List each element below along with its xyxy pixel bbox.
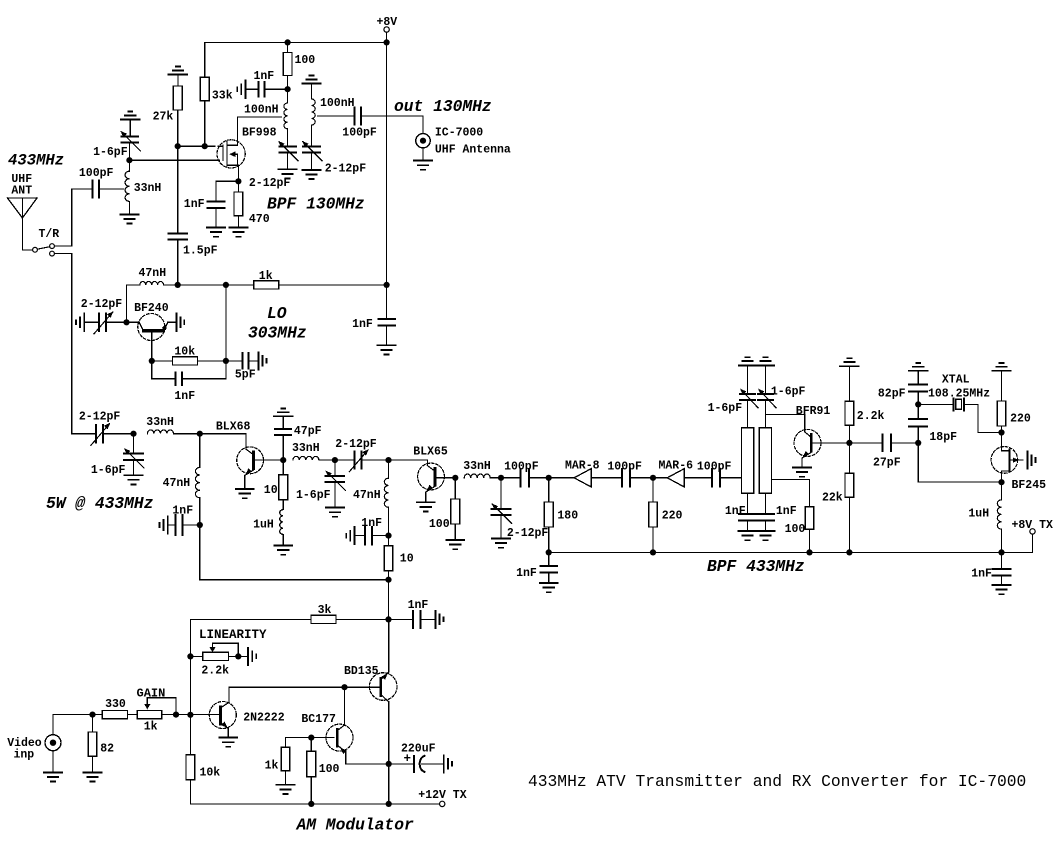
resistor 2.2k	[845, 366, 885, 443]
ground mini right of linearity	[238, 648, 256, 665]
label UHF ANT	[11, 173, 32, 198]
transistor Q4 BFR91	[766, 405, 850, 468]
label BPF 433MHz	[707, 557, 805, 576]
wire 3k rail	[190, 618, 311, 620]
trimmer 2-12pF osc	[81, 298, 127, 334]
node 33k/gate1	[202, 143, 208, 149]
svg-text:1k: 1k	[259, 270, 273, 283]
node gain wiper	[173, 712, 179, 718]
resistor 22k	[822, 443, 854, 553]
resistor 100 BLX65	[429, 478, 460, 540]
resistor 220 MAR6	[649, 478, 683, 553]
label BF998	[242, 127, 277, 140]
node bus/1uH	[998, 549, 1004, 555]
svg-text:1uH: 1uH	[253, 519, 274, 532]
wire trimmer1 to ground	[287, 153, 289, 170]
ground 1nF bus right	[993, 585, 1011, 594]
node rail/100	[308, 801, 314, 807]
svg-text:100: 100	[319, 763, 340, 776]
node rail/BD135	[386, 801, 392, 807]
svg-text:5W @ 433MHz: 5W @ 433MHz	[46, 494, 153, 513]
resistor 33k	[200, 77, 232, 102]
svg-text:10: 10	[400, 553, 414, 566]
svg-text:1nF: 1nF	[408, 599, 429, 612]
capacitor 1nF drain bypass	[246, 70, 288, 97]
ground resonator 1	[739, 531, 757, 540]
ground mini above resonator 2	[761, 357, 771, 361]
resistor 100	[283, 42, 315, 89]
ground BLX65 emitter	[417, 502, 435, 511]
trimmer 2-12pF TX series	[72, 411, 134, 446]
wire +8V rail	[205, 41, 387, 43]
ground 2N2222 emitter	[219, 738, 237, 747]
svg-text:1k: 1k	[265, 760, 279, 773]
svg-text:220: 220	[1010, 413, 1031, 426]
svg-text:330: 330	[105, 698, 126, 711]
power terminal +12V TX	[418, 789, 466, 807]
capacitor 1nF source	[184, 181, 239, 227]
wire RX input vertical	[71, 189, 73, 246]
resistor 3k	[311, 604, 389, 624]
ground 1nF LO	[378, 345, 396, 354]
svg-text:1-6pF: 1-6pF	[708, 402, 743, 415]
node BLX65 base	[385, 457, 391, 463]
resistor 470	[234, 181, 270, 227]
ground mini left of 1nF	[237, 81, 245, 98]
svg-text:2-12pF: 2-12pF	[325, 163, 367, 176]
node +8V/LO rail	[384, 282, 390, 288]
ground 1uH BLX68	[274, 546, 292, 555]
svg-text:BF245: BF245	[1012, 479, 1047, 492]
wire modulated supply left	[200, 525, 389, 580]
svg-text:100pF: 100pF	[79, 167, 114, 180]
inductor 100nH right	[302, 76, 354, 146]
label BPF 130MHz	[267, 195, 365, 214]
svg-text:2.2k: 2.2k	[201, 665, 229, 678]
svg-text:1-6pF: 1-6pF	[771, 385, 806, 398]
svg-text:1nF: 1nF	[725, 505, 746, 518]
svg-text:10k: 10k	[200, 767, 221, 780]
svg-text:1.5pF: 1.5pF	[183, 244, 218, 257]
svg-text:100: 100	[295, 54, 316, 67]
wire modulator vertical top	[388, 580, 390, 620]
node bus/100	[806, 549, 812, 555]
node BD135 base/BC177	[341, 684, 347, 690]
label AM Modulator	[296, 816, 414, 835]
inductor 100nH left	[244, 89, 288, 146]
svg-text:LO: LO	[267, 304, 287, 323]
ground mini above resonator 1	[743, 357, 753, 361]
ground 1nF bus left	[540, 583, 558, 592]
svg-text:BPF 433MHz: BPF 433MHz	[707, 557, 805, 576]
wire +8V vertical	[386, 42, 388, 285]
power terminal +8V TX	[1002, 519, 1054, 552]
resistor 330	[93, 698, 138, 719]
node BFR91 collector	[846, 440, 852, 446]
node BLX65 collector	[452, 475, 458, 481]
ground mini right of 5pF	[258, 352, 266, 369]
svg-text:BF998: BF998	[242, 127, 277, 140]
transistor Q6 2N2222	[209, 687, 284, 737]
ground BPF1	[279, 169, 297, 178]
trimmer 2-12pF interstage	[335, 438, 388, 472]
resistor 220 osc	[997, 371, 1031, 433]
svg-text:1-6pF: 1-6pF	[91, 464, 126, 477]
ground 33nH input	[120, 214, 138, 223]
node bus/220	[650, 549, 656, 555]
wire 27k column	[177, 110, 179, 233]
ground mini above 82pF	[909, 363, 928, 371]
trimmer 1-6pF resonator 1	[708, 365, 758, 427]
svg-text:1k: 1k	[144, 721, 158, 734]
capacitor 1nF modulator	[389, 599, 436, 628]
svg-text:100pF: 100pF	[697, 461, 732, 474]
wire TX path vertical	[71, 254, 73, 434]
svg-text:47pF: 47pF	[294, 425, 322, 438]
svg-text:out 130MHz: out 130MHz	[394, 97, 492, 116]
ground mini above 220	[992, 363, 1011, 371]
node output tank	[498, 475, 504, 481]
node 10k/5pF	[223, 358, 229, 364]
wire 33k to rail	[204, 42, 206, 77]
node junction top rail / 100	[285, 39, 291, 45]
wire gate2	[129, 159, 219, 161]
inductor 33nH interstage	[292, 442, 354, 460]
node junction top rail / +8V	[384, 39, 390, 45]
ground mini above 1-6pF input	[121, 112, 140, 120]
svg-text:5pF: 5pF	[235, 369, 256, 382]
resistor 100 BC177	[307, 738, 340, 804]
svg-text:1-6pF: 1-6pF	[93, 146, 128, 159]
node base/linearity column	[187, 712, 193, 718]
svg-text:2-12pF: 2-12pF	[335, 438, 377, 451]
potentiometer 2.2k LINEARITY	[190, 643, 238, 677]
ground 1k BC177	[277, 785, 295, 794]
resistor 10k feedback	[152, 346, 226, 366]
capacitor 5pF	[226, 353, 259, 381]
svg-text:2-12pF: 2-12pF	[79, 411, 121, 424]
trimmer 2-12pF BPF1	[249, 139, 298, 190]
capacitor 220uF	[389, 743, 444, 772]
node video/82	[89, 712, 95, 718]
wire BPF output tap	[772, 480, 810, 507]
ground BPF2	[303, 170, 321, 179]
wire trimmer2 to ground	[311, 153, 313, 170]
node 27k/gate1	[175, 143, 181, 149]
svg-text:82: 82	[100, 743, 114, 756]
node 3k/modulator	[385, 616, 391, 622]
svg-text:1-6pF: 1-6pF	[296, 489, 331, 502]
svg-text:47nH: 47nH	[163, 477, 191, 490]
node XTAL/220/gate	[998, 429, 1004, 435]
node BD135 collector/220uF	[386, 761, 392, 767]
resistor 100 BPF	[785, 507, 814, 553]
svg-text:180: 180	[557, 510, 578, 523]
node BF240 base	[149, 358, 155, 364]
label LINEARITY	[199, 628, 267, 642]
svg-text:MAR-6: MAR-6	[659, 459, 694, 472]
connector IC-7000 UHF	[416, 126, 511, 156]
inductor 1uH BF245	[968, 482, 1001, 552]
trimmer 1-6pF input	[93, 120, 140, 161]
wire 2N2222 base	[162, 714, 220, 716]
capacitor 1nF resonator 1	[725, 493, 756, 531]
ground interstage shunt	[326, 508, 344, 517]
inductor 33nH input	[125, 160, 161, 214]
node BF245 source	[998, 479, 1004, 485]
svg-text:470: 470	[249, 213, 270, 226]
power terminal +8V	[377, 16, 398, 42]
node linearity left	[187, 653, 193, 659]
wire out 130MHz	[318, 116, 424, 133]
label out 130MHz	[394, 97, 492, 116]
ground mini right of 1nF mod	[435, 611, 443, 628]
node BF998 source	[235, 178, 241, 184]
node input junction	[126, 157, 132, 163]
node modulated supply	[385, 577, 391, 583]
wire ground bus	[549, 551, 1002, 553]
transistor Q3 BLX65	[389, 446, 456, 503]
wire BC177 base	[286, 738, 334, 748]
svg-text:GAIN: GAIN	[137, 687, 166, 701]
node BC177 base/100	[308, 735, 314, 741]
trimmer 1-6pF resonator 2	[756, 365, 805, 427]
svg-text:100nH: 100nH	[320, 97, 355, 110]
svg-text:BPF 130MHz: BPF 130MHz	[267, 195, 365, 214]
svg-text:433MHz: 433MHz	[8, 152, 64, 170]
svg-text:1nF: 1nF	[352, 318, 373, 331]
svg-text:100: 100	[785, 523, 806, 536]
connector Video inp	[7, 715, 92, 762]
resistor 10 BLX68	[264, 460, 288, 500]
wire BF998 drain	[238, 117, 282, 145]
ground mini above 2.2k	[840, 358, 859, 366]
antenna UHF	[8, 198, 38, 250]
ground IC-7000	[414, 148, 432, 170]
svg-text:33k: 33k	[212, 90, 233, 103]
node 1.5pF/LO rail	[175, 282, 181, 288]
ground mini BF240 emitter	[177, 314, 185, 332]
wire source to 18pF node	[918, 443, 1001, 482]
svg-text:ANT: ANT	[11, 185, 32, 198]
svg-text:10k: 10k	[174, 346, 195, 359]
wire 33k to gate1	[204, 101, 206, 146]
svg-text:IC-7000: IC-7000	[435, 126, 483, 139]
svg-text:303MHz: 303MHz	[248, 324, 307, 343]
transistor U1 BF998 dual-gate MOSFET	[217, 140, 245, 182]
label 5W @ 433MHz	[46, 494, 153, 513]
svg-text:XTAL: XTAL	[942, 374, 970, 387]
resistor 27k	[153, 75, 183, 124]
ground mini right of 220uF	[444, 755, 452, 772]
potentiometer 1k GAIN	[137, 687, 177, 734]
resistor 180	[544, 478, 578, 553]
node BLX68 collector	[280, 457, 286, 463]
svg-text:27k: 27k	[153, 111, 174, 124]
transistor Q5 BF245	[991, 433, 1046, 493]
svg-text:+8V TX: +8V TX	[1012, 519, 1054, 532]
svg-text:10: 10	[264, 484, 278, 497]
title	[528, 772, 1026, 791]
capacitor 1nF resonator 2	[757, 493, 797, 531]
node MAR-8 input	[546, 475, 552, 481]
svg-text:2.2k: 2.2k	[857, 410, 885, 423]
node 47nH/1nF	[197, 522, 203, 528]
node MAR-6 input	[650, 475, 656, 481]
ground mini 1nF BLX65	[346, 527, 354, 544]
label LO 303MHz	[248, 304, 307, 343]
capacitor 100pF MAR8-MAR6	[607, 461, 653, 487]
svg-text:33nH: 33nH	[146, 416, 174, 429]
ground 470	[229, 228, 247, 237]
resistor 82	[88, 715, 114, 773]
capacitor 82pF	[878, 371, 927, 405]
capacitor 100pF input	[72, 167, 124, 198]
capacitor 1nF BLX68	[168, 505, 200, 535]
svg-text:47nH: 47nH	[139, 267, 167, 280]
transistor Q8 BD135	[344, 619, 397, 804]
resonator line 2	[759, 428, 771, 493]
crystal XTAL 108.25MHz	[918, 374, 1001, 433]
node interstage shunt	[332, 457, 338, 463]
inductor 47nH LO	[127, 267, 167, 322]
ground 1nF source	[207, 228, 225, 237]
inductor 33nH output	[463, 460, 520, 478]
ground BLX68 emitter	[236, 489, 254, 498]
svg-text:1nF: 1nF	[361, 517, 382, 530]
capacitor 100pF out	[342, 108, 377, 140]
capacitor 1nF bus right	[971, 552, 1010, 585]
inductor 1uH BLX68	[253, 500, 283, 546]
wire +12V rail	[190, 803, 439, 805]
node 82pF/18pF/XTAL	[915, 401, 921, 407]
svg-text:108.25MHz: 108.25MHz	[928, 388, 990, 401]
svg-text:100pF: 100pF	[607, 461, 642, 474]
svg-text:33nH: 33nH	[463, 460, 491, 473]
svg-text:3k: 3k	[318, 604, 332, 617]
inductor 47nH BLX65	[353, 460, 389, 535]
svg-text:2-12pF: 2-12pF	[249, 177, 291, 190]
resistor 10 BLX65	[384, 536, 414, 580]
svg-text:+12V TX: +12V TX	[418, 789, 466, 802]
ground 100 BLX65	[446, 540, 464, 549]
ground resonator 2	[757, 531, 775, 540]
resonator line 1	[742, 428, 754, 493]
svg-text:+8V: +8V	[377, 16, 398, 29]
svg-text:LINEARITY: LINEARITY	[199, 628, 267, 642]
svg-text:100: 100	[429, 518, 450, 531]
svg-text:1uH: 1uH	[968, 508, 989, 521]
svg-text:BLX65: BLX65	[413, 446, 448, 459]
svg-text:BLX68: BLX68	[216, 421, 251, 434]
svg-text:100nH: 100nH	[244, 104, 279, 117]
ground Video inp	[44, 751, 62, 782]
capacitor 1nF feedback	[152, 361, 226, 403]
svg-text:MAR-8: MAR-8	[565, 459, 600, 472]
amplifier MAR-8	[549, 459, 622, 487]
svg-text:2-12pF: 2-12pF	[81, 298, 123, 311]
amplifier MAR-6	[653, 459, 711, 487]
ground output shunt	[492, 539, 510, 548]
svg-text:UHF Antenna: UHF Antenna	[435, 143, 511, 156]
trimmer 2-12pF output shunt	[490, 478, 549, 540]
capacitor 100pF to BPF433	[697, 461, 742, 487]
svg-text:33nH: 33nH	[134, 182, 162, 195]
wire 2N2222 collector to BD135	[229, 686, 379, 688]
svg-text:2N2222: 2N2222	[243, 712, 285, 725]
node 47nH/1nF BLX65	[385, 533, 391, 539]
svg-text:47nH: 47nH	[353, 489, 381, 502]
svg-text:1nF: 1nF	[172, 505, 193, 518]
wire LO rail	[164, 284, 254, 286]
node linearity wiper	[235, 653, 241, 659]
capacitor 1.5pF	[168, 233, 217, 285]
ground TX shunt	[125, 475, 143, 484]
resistor 1k BC177	[265, 747, 290, 784]
svg-text:inp: inp	[14, 749, 35, 762]
svg-text:27pF: 27pF	[873, 457, 901, 470]
svg-text:T/R: T/R	[39, 228, 60, 241]
trimmer 1-6pF interstage	[296, 460, 345, 508]
svg-text:BFR91: BFR91	[796, 405, 831, 418]
svg-text:22k: 22k	[822, 492, 843, 505]
capacitor 47pF	[274, 408, 322, 460]
inductor 47nH BLX68	[163, 434, 200, 525]
svg-text:1nF: 1nF	[776, 505, 797, 518]
capacitor 1nF BLX65	[355, 517, 389, 544]
svg-text:100pF: 100pF	[504, 461, 539, 474]
svg-text:33nH: 33nH	[292, 442, 320, 455]
transistor Q1 BF240	[127, 302, 177, 361]
svg-text:BC177: BC177	[301, 713, 336, 726]
node bus/180	[546, 549, 552, 555]
svg-text:2-12pF: 2-12pF	[507, 527, 549, 540]
svg-text:1nF: 1nF	[971, 568, 992, 581]
resistor 10k	[186, 755, 220, 804]
node mixer injection	[915, 440, 921, 446]
node TX tank	[130, 431, 136, 437]
capacitor 100pF to MAR-8	[504, 461, 549, 487]
ground mini 1nF BLX68	[160, 516, 168, 533]
resistor 1k LO	[254, 270, 387, 289]
switch T/R	[22, 228, 71, 256]
node LO/coil	[223, 282, 229, 288]
ground mini above 27k	[169, 67, 188, 75]
node osc tank	[123, 319, 129, 325]
node bus/22k	[846, 549, 852, 555]
svg-text:1nF: 1nF	[184, 198, 205, 211]
svg-text:AM Modulator: AM Modulator	[296, 816, 414, 835]
transistor Q7 BC177	[301, 687, 388, 764]
wire resonator top bar	[739, 364, 774, 366]
ground BFR91 emitter	[793, 468, 811, 477]
trimmer 1-6pF TX shunt	[91, 434, 144, 477]
transistor Q2 BLX68	[200, 421, 283, 490]
svg-text:18pF: 18pF	[929, 431, 957, 444]
ground mini BF245 drain	[1028, 452, 1036, 469]
wire LO div vertical	[225, 285, 227, 361]
svg-text:220: 220	[662, 510, 683, 523]
capacitor 18pF	[909, 404, 957, 444]
capacitor 1nF LO bypass	[352, 285, 395, 345]
svg-text:82pF: 82pF	[878, 388, 906, 401]
wire gate1	[177, 145, 223, 147]
trimmer 2-12pF BPF2	[300, 139, 366, 175]
capacitor 27pF	[849, 435, 918, 470]
node BLX68 base	[197, 431, 203, 437]
svg-text:1nF: 1nF	[516, 567, 537, 580]
svg-text:100pF: 100pF	[342, 127, 377, 140]
